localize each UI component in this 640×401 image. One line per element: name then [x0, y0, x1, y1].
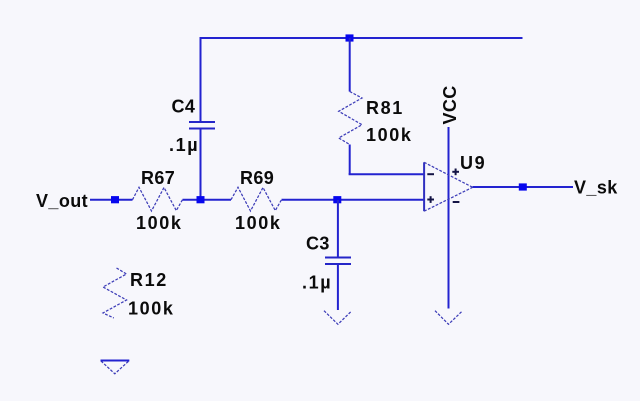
wire R81 lower lead: [349, 145, 351, 175]
wire VCC supply rail through U9: [448, 127, 450, 309]
svg-text:R69: R69: [240, 168, 274, 188]
node port square at V_sk: [519, 183, 527, 190]
svg-text:100k: 100k: [235, 213, 281, 233]
U9 noninverting input mark +: [427, 196, 434, 203]
svg-text:.1µ: .1µ: [302, 273, 332, 293]
svg-text:C3: C3: [306, 234, 330, 254]
svg-text:V_sk: V_sk: [574, 178, 618, 198]
svg-text:R67: R67: [141, 168, 175, 188]
svg-text:.1µ: .1µ: [169, 135, 199, 155]
svg-text:VCC: VCC: [440, 85, 460, 124]
node junction with C3: [333, 196, 341, 203]
svg-text:100k: 100k: [128, 299, 174, 319]
node port square at V_out: [111, 196, 119, 203]
wire R67 to R69: [183, 199, 232, 201]
U9 positive supply mark +: [452, 169, 459, 176]
svg-text:R81: R81: [366, 98, 404, 118]
resistor R69: [231, 187, 282, 211]
resistor R67: [133, 187, 183, 211]
wire from V_out port: [90, 199, 133, 201]
U9 negative supply mark -: [453, 201, 460, 203]
wire C3 lower lead: [337, 264, 339, 310]
capacitor C4: [189, 122, 215, 129]
wire C3 upper lead: [337, 200, 339, 258]
wire top rail from C4 corner to right end: [201, 37, 523, 39]
node junction on top rail: [346, 34, 354, 41]
svg-text:R12: R12: [130, 270, 168, 290]
U9 inverting input mark -: [427, 173, 434, 175]
wire to inverting input of U9: [349, 173, 424, 175]
wire C4 upper lead: [200, 37, 202, 122]
ground triangle bottom left: [101, 361, 130, 374]
svg-text:100k: 100k: [366, 125, 412, 145]
resistor R12: [103, 268, 127, 318]
svg-text:V_out: V_out: [36, 191, 88, 211]
wire R81 upper lead: [349, 38, 351, 92]
ground arrow under U9 supply: [435, 311, 462, 325]
resistor R81: [339, 92, 362, 145]
capacitor C3: [325, 258, 351, 265]
ground arrow under C3: [324, 311, 352, 325]
wire U9 output: [473, 186, 573, 188]
svg-text:U9: U9: [460, 153, 486, 173]
wire C4 lower lead to main node: [200, 129, 202, 201]
svg-text:100k: 100k: [136, 213, 182, 233]
wire R69 to noninverting input of U9: [282, 199, 425, 201]
op-amp U9 triangle: [424, 162, 473, 211]
svg-text:C4: C4: [172, 97, 196, 117]
node junction with C4: [197, 196, 205, 203]
